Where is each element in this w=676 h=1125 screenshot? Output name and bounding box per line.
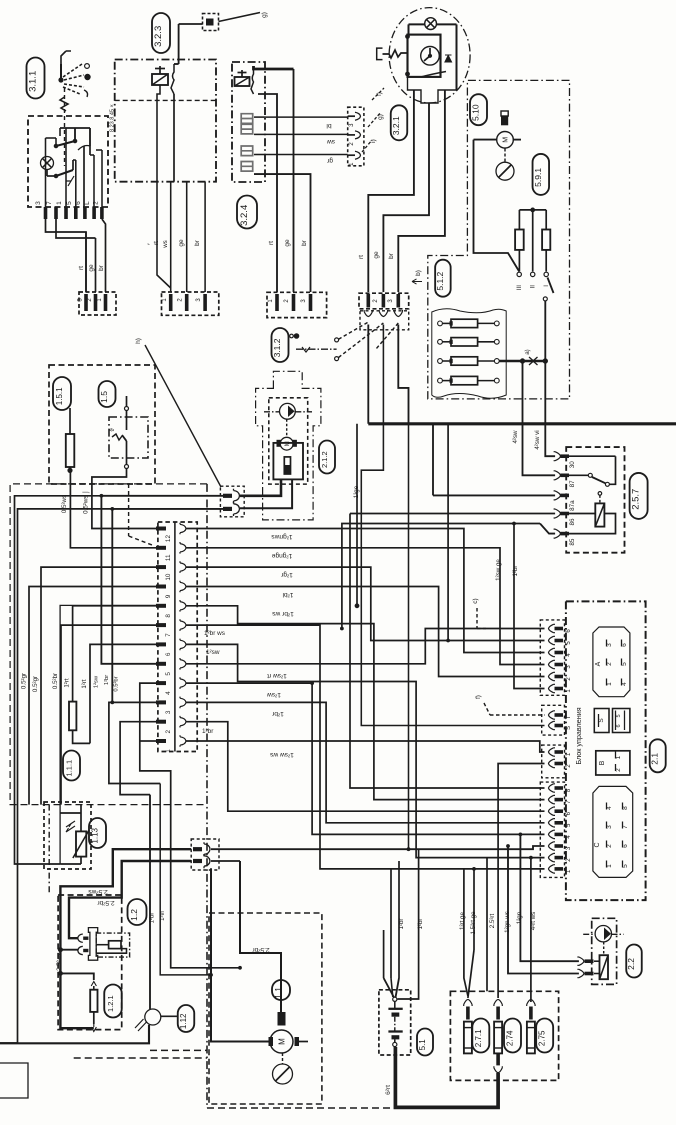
svg-text:1²br: 1²br (512, 565, 519, 576)
wire sender to strip pin5 (101, 496, 223, 664)
wire ge (186, 182, 188, 292)
svg-text:ge: ge (88, 264, 95, 272)
wire 4swvi down (545, 361, 555, 456)
wire relay86 to C8 (350, 514, 545, 789)
svg-text:3.1.2: 3.1.2 (272, 338, 282, 357)
wire from right into battery terminal (398, 935, 419, 999)
strip wire p1 left stub (140, 740, 156, 742)
wire 4rtws to fuse 2.75 (530, 858, 532, 998)
wire 0.5ws from resistor to pin11 (70, 473, 156, 548)
lamp supply wire (409, 23, 425, 25)
strip pin 2 (156, 720, 166, 724)
svg-text:1²sw rt: 1²sw rt (267, 672, 287, 679)
housing lower outline (408, 77, 457, 103)
strip pin 9 (156, 585, 166, 589)
contact circles 3.1.2 (335, 338, 339, 342)
component label oval 1.1.1 (63, 751, 80, 781)
control unit pin C6 (548, 807, 555, 815)
svg-text:B: B (599, 760, 606, 765)
pin 2 of 3.1.1 (100, 207, 104, 219)
wire p7 to C1 (186, 625, 545, 869)
pin 5 of 3.1.1 (74, 207, 78, 219)
valve terminal 1 (577, 957, 584, 965)
svg-text:1²br: 1²br (271, 710, 284, 717)
wire 87a up to ignition feed (432, 424, 434, 496)
glow plug inner dashed box (96, 933, 129, 957)
wire p2 to C6 (186, 722, 545, 812)
svg-text:5.1.2: 5.1.2 (435, 271, 445, 290)
wire from connector pin1 down (367, 325, 369, 424)
svg-text:2.74: 2.74 (506, 1030, 515, 1046)
component label oval 5.9.1 (533, 154, 550, 195)
contact set upper (56, 141, 75, 146)
control unit pin B1 (548, 748, 555, 756)
component label oval 3.1.1 (27, 58, 45, 99)
relay box 2.5.7 (566, 447, 624, 553)
relay terminal 87 (554, 471, 561, 480)
fuse box 2.7 (450, 991, 558, 1080)
glow element (109, 941, 121, 949)
valve terminal 2 (577, 969, 584, 977)
wire gr to pin 1 (265, 154, 348, 156)
component label oval 2.7.1 (472, 1019, 489, 1053)
svg-text:ge: ge (373, 251, 380, 259)
blower motor M (497, 132, 514, 149)
wire from connector pin3 down jog (398, 325, 408, 424)
strip pin 8 (156, 604, 166, 608)
svg-text:85: 85 (569, 538, 576, 546)
svg-text:1: 1 (56, 201, 63, 205)
svg-text:11: 11 (165, 554, 172, 561)
svg-text:1²gnws: 1²gnws (271, 533, 293, 540)
glow plug pins (83, 937, 88, 940)
svg-text:1²br: 1²br (150, 913, 156, 924)
equipment boundary box 5 (428, 80, 570, 399)
ground wire to glow indicator (0, 1025, 149, 1044)
resistor II (542, 230, 550, 250)
connector X of 3.2.4 (267, 292, 327, 317)
mechanical dashed link 1.5 (128, 484, 130, 536)
control unit pin C2 (548, 853, 555, 861)
wire C1 feed to fuse 2.7.1 (473, 869, 475, 950)
svg-text:2.1: 2.1 (650, 753, 660, 765)
fuse 2.74 bottom pin (496, 1053, 500, 1065)
motor feed wire (474, 140, 520, 272)
sensor arrows (66, 821, 75, 832)
svg-text:br: br (388, 252, 395, 259)
wire rt vertical (258, 94, 277, 292)
wire top thick from display (254, 66, 294, 69)
connector B pin field dashed box (542, 745, 565, 778)
svg-text:1.13: 1.13 (91, 827, 100, 843)
wire to 87a left (433, 494, 555, 496)
switch 3.1.2 symbols (294, 334, 298, 338)
fuse 2.75 (527, 999, 535, 1006)
sensor box 1.1.3 (44, 802, 91, 869)
switch 1.5 top lead (126, 396, 128, 407)
connector ST pin field dashed box (542, 705, 565, 735)
connector ST detail housings (594, 709, 609, 733)
svg-text:II: II (530, 285, 537, 289)
wire rt to connector (85, 232, 87, 292)
feed wire down to junction (408, 424, 410, 849)
wire 1vi down (160, 784, 211, 975)
svg-text:ge: ge (178, 239, 185, 247)
strip pin 10 (156, 565, 166, 569)
svg-text:1²bl: 1²bl (282, 591, 294, 598)
control unit pin C5 (548, 819, 555, 827)
equipment dashed box 1.1 (209, 913, 322, 1104)
wire ws (170, 182, 172, 292)
inline connector pair 2.1.2 (220, 486, 244, 517)
svg-text:T: T (566, 715, 572, 719)
control unit pin S (548, 721, 555, 729)
svg-text:bl: bl (326, 122, 332, 129)
sender housing (273, 443, 303, 480)
boundary dashed bottom (74, 1057, 207, 1059)
wire br (204, 182, 206, 292)
control unit pin C3 (548, 842, 555, 850)
harness connector strip box (158, 522, 197, 752)
svg-text:4²sw vi: 4²sw vi (534, 430, 541, 449)
wire 1.5rtge (486, 858, 488, 992)
wires from relay to connector 3.2.3 (173, 94, 175, 182)
switch unit box 3.1.1 (28, 116, 108, 207)
svg-text:br: br (301, 239, 308, 246)
wire 4sw down (523, 361, 556, 475)
svg-text:4²rt ws: 4²rt ws (530, 912, 537, 931)
connector X of 3.1.1 (79, 292, 116, 315)
svg-text:3.2.1: 3.2.1 (391, 116, 401, 135)
svg-text:1³ge: 1³ge (353, 485, 360, 498)
fuel level gauge bar (284, 457, 290, 474)
svg-text:gr: gr (326, 157, 333, 164)
component label oval 3.2.3 (152, 13, 170, 53)
wire from 1.1 right (298, 1041, 309, 1043)
inner partition dashed (115, 99, 216, 101)
component label oval 2.2 (626, 945, 642, 978)
strip wire p9 left (29, 587, 156, 805)
starter fan symbol (273, 1064, 293, 1084)
relay terminal 86 (554, 509, 561, 518)
svg-text:br: br (194, 239, 201, 246)
bottom left partial box (0, 1063, 28, 1098)
contact in 3.2.4 (251, 66, 254, 94)
bottom dashed segment (150, 1049, 207, 1051)
fuel pump circle (280, 403, 296, 419)
coil wiring (569, 513, 595, 515)
wire 0.5ws from switch to pin12 (92, 469, 156, 529)
svg-text:b): b) (415, 270, 422, 276)
svg-text:0.5²br: 0.5²br (52, 673, 59, 689)
wire to 85 left jog (540, 524, 555, 534)
clock housing (408, 35, 441, 77)
svg-text:1.2.1: 1.2.1 (106, 995, 115, 1012)
svg-text:1²sw ws: 1²sw ws (269, 751, 294, 758)
svg-text:87: 87 (569, 480, 576, 488)
connector C detail housing (593, 786, 633, 877)
fused feed wire row3 (499, 360, 543, 363)
illumination lamp (425, 18, 437, 30)
squiggle wire to housing (383, 50, 408, 58)
wire sw to pin 2 (265, 133, 348, 135)
component label oval 3.1.2 (272, 328, 289, 362)
wire ge to connector (95, 238, 97, 292)
svg-text:f): f) (475, 695, 482, 699)
svg-text:III: III (516, 285, 523, 290)
svg-text:g): g) (261, 12, 268, 18)
wire 1br down to 1.1.2 (149, 795, 151, 1009)
svg-text:1.1.1: 1.1.1 (65, 760, 74, 777)
white bus wire 2.5ws (60, 849, 191, 1028)
enclosure dashed box left (10, 484, 207, 805)
display unit box 3.2.4 (232, 62, 265, 182)
component label oval 1.2 (128, 899, 147, 925)
component box 1.2 (58, 895, 122, 1030)
svg-text:1²br: 1²br (104, 675, 110, 685)
gauge symbol black (501, 111, 508, 125)
svg-text:1²sw: 1²sw (94, 675, 100, 688)
inner dashed box 2.1.2 (269, 398, 308, 484)
svg-text:0.5²gr: 0.5²gr (32, 676, 39, 692)
svg-text:1²gr: 1²gr (280, 571, 293, 578)
control unit pin A4 (548, 648, 555, 656)
component label oval 3.2.1 (391, 105, 408, 140)
svg-text:i): i) (370, 139, 377, 143)
svg-text:1²gn ws: 1²gn ws (504, 911, 511, 933)
wire to terminal g (179, 23, 203, 25)
wire p4 to C4 (186, 683, 545, 834)
wire to valve t1 (520, 834, 579, 961)
svg-text:1²sw: 1²sw (206, 649, 220, 656)
wire 2.5br to glow pin1 (69, 861, 191, 938)
resistor feed wire (60, 973, 93, 980)
svg-text:7: 7 (46, 201, 53, 205)
wire 1ge drop (356, 424, 358, 606)
wire bl to pin 3 (265, 116, 348, 118)
svg-text:1.5.1: 1.5.1 (55, 387, 64, 405)
strip pin 12 (156, 527, 166, 531)
svg-text:87a: 87a (569, 500, 576, 511)
wire p10 to A5 (186, 567, 545, 640)
svg-text:5: 5 (165, 672, 172, 676)
wire 1 rt slant (157, 182, 171, 288)
clock face (421, 47, 440, 66)
thick wire from M left (211, 868, 269, 1041)
mech link dash-dot 3.1.2 (296, 348, 337, 350)
display drive wires (254, 116, 265, 118)
wire from pin 7 jog (56, 219, 96, 238)
relay contact (171, 64, 174, 94)
pin2 tap wire (60, 949, 77, 951)
wire from connector pin2 down to control unit S (361, 325, 544, 726)
strip pin 3 (156, 700, 166, 704)
relay terminal 87a (554, 491, 561, 500)
sensor top wire (80, 805, 82, 813)
svg-text:rt: rt (268, 241, 275, 245)
strip wire p2 left staircase (120, 722, 156, 795)
component label oval 1.1.3 (89, 818, 106, 848)
control unit pin C4 (548, 830, 555, 838)
thermo switch 1.5 (109, 417, 148, 458)
component label oval 1.2.1 (104, 985, 122, 1018)
wire 1rtge to fuse 2.7.1 (464, 869, 468, 996)
svg-text:8: 8 (165, 614, 172, 618)
battery positive funnel wires (383, 930, 385, 978)
svg-text:1²sw ge: 1²sw ge (495, 559, 502, 581)
connector X of 3.2.1 (359, 293, 409, 309)
wire 2.5br into 1.1 (240, 861, 281, 1012)
wire relay85 branch to A6 (342, 524, 514, 629)
component label oval 5.10 (470, 94, 487, 125)
svg-text:1²br ws: 1²br ws (204, 630, 225, 637)
plug connector top (203, 14, 219, 31)
resistor 1.1.1 (69, 702, 76, 731)
boundary dashed link (48, 805, 50, 895)
strip pin 5 (156, 662, 166, 666)
control unit pin C7 (548, 795, 555, 803)
connector X of 3.2.3 (162, 292, 219, 315)
component label oval 2.1.2 (319, 441, 335, 474)
svg-text:2.5²br: 2.5²br (252, 946, 270, 953)
svg-text:2.75: 2.75 (538, 1030, 547, 1046)
wire p1 to B1 (186, 741, 545, 752)
wire br to connector (102, 219, 106, 292)
svg-text:10: 10 (165, 573, 172, 581)
svg-text:C: C (594, 842, 601, 847)
inner mechanical dashed link (64, 116, 66, 166)
selector wire down (544, 301, 546, 361)
pin 6 of 3.1.1 (83, 207, 87, 219)
enclosure dash-dot boundary vertical (206, 484, 208, 1108)
svg-text:h): h) (135, 338, 142, 344)
relay coil (595, 503, 604, 526)
valve box 2.2 (592, 918, 617, 984)
component label oval 3.2.4 (237, 196, 257, 229)
sender wire left (240, 479, 281, 495)
svg-text:br: br (98, 264, 105, 271)
equipment box 2.1.2 (256, 371, 321, 520)
svg-text:S: S (566, 726, 572, 730)
connector A detail housing (593, 627, 630, 697)
svg-text:3.2.3: 3.2.3 (153, 26, 164, 47)
wire sender 2 down to junction (112, 509, 223, 703)
svg-text:9: 9 (165, 594, 172, 598)
solid box around 1.1.1 (60, 605, 158, 864)
svg-text:0.5²ws: 0.5²ws (61, 495, 68, 513)
strip wire p6 left (90, 644, 156, 743)
intermediate connector 3-pin (348, 107, 364, 166)
svg-text:L: L (84, 201, 91, 205)
svg-text:8 23 8 45 ×: 8 23 8 45 × (110, 104, 116, 132)
control unit pin B2 (548, 759, 555, 767)
component label oval 2.74 (504, 1019, 521, 1053)
strip wire p7 left (61, 625, 156, 805)
spring zigzag (60, 97, 68, 111)
mating connector arrows (360, 311, 409, 330)
wire sender branch to frame (0, 509, 112, 1043)
wire jog from pin 3 (46, 219, 87, 292)
svg-text:I: I (543, 285, 550, 287)
control unit pin A3 (548, 660, 555, 668)
svg-text:1²rt: 1²rt (64, 678, 71, 688)
terminal bracket left (377, 48, 383, 60)
svg-text:1²gn: 1²gn (516, 911, 523, 924)
svg-text:1²br: 1²br (417, 918, 424, 929)
fuse 2.74 wire up (497, 930, 499, 998)
wire p9 to A2 (186, 587, 545, 677)
component outline ellipse 3.2.1 (389, 8, 470, 103)
svg-text:6: 6 (165, 652, 172, 656)
wire ge vertical (293, 69, 295, 292)
svg-text:5.1: 5.1 (418, 1039, 427, 1051)
sender wire right (240, 479, 292, 508)
fuse 2.7.1 wire up slanted (468, 950, 474, 998)
lever detent rays (63, 64, 82, 77)
svg-text:rt: rt (358, 255, 365, 259)
pin 7 of 3.1.1 (54, 207, 58, 219)
wire to valve t2 (508, 846, 579, 974)
strip pin 11 (156, 546, 166, 550)
fuse 2.75 wire upper (530, 998, 532, 1002)
component label oval 5.1 (417, 1029, 433, 1056)
svg-text:1²vi: 1²vi (160, 911, 166, 921)
svg-text:M: M (278, 1038, 287, 1045)
component box 1.5 (49, 365, 155, 484)
resistor 1.2.1 with arrows (91, 982, 96, 987)
svg-text:0.5²gr: 0.5²gr (21, 673, 28, 689)
component label oval 1.5 (99, 381, 116, 407)
svg-text:2.5²rt: 2.5²rt (489, 914, 496, 929)
svg-text:1²br ws: 1²br ws (271, 610, 293, 617)
wiring inside switch box (55, 138, 57, 146)
pin 4 of 3.1.1 (92, 207, 96, 219)
connector C pin field dashed box (540, 782, 564, 877)
valve body (600, 955, 609, 979)
svg-text:86: 86 (569, 518, 576, 526)
svg-text:A: A (595, 661, 602, 666)
relay coil in 3.2.4 (235, 77, 250, 86)
fuse row 1 in 5.1.2 (438, 321, 443, 326)
svg-text:0.5²ws ⌡: 0.5²ws ⌡ (82, 490, 90, 514)
component label oval 2.5.7 (630, 473, 648, 519)
svg-text:4²sw: 4²sw (512, 430, 519, 444)
svg-text:Блок управления: Блок управления (574, 707, 583, 764)
wire p8 to C7 (186, 606, 545, 800)
svg-text:1.5²rt ge: 1.5²rt ge (470, 911, 477, 935)
svg-text:1²br: 1²br (398, 918, 405, 929)
control unit pin C1 (548, 865, 555, 873)
svg-text:2.1.2: 2.1.2 (320, 451, 329, 468)
wire p5 to A6 (186, 629, 545, 664)
svg-text:1²br: 1²br (202, 728, 214, 735)
svg-text:1²sw: 1²sw (267, 691, 281, 698)
control unit box 2.1 (566, 601, 646, 900)
svg-text:M: M (503, 137, 510, 143)
svg-text:12: 12 (165, 535, 172, 543)
fuse row 3 in 5.1.2 (438, 359, 443, 364)
svg-text:rt: rt (78, 266, 85, 270)
resistor 1.5.1 (66, 434, 75, 467)
connector A pin field dashed box (540, 620, 564, 695)
fuse panel torn-edge outline (432, 309, 506, 399)
strip wire p3 left staircase (109, 702, 160, 783)
svg-text:2: 2 (165, 729, 172, 733)
svg-text:2.7.1: 2.7.1 (474, 1029, 483, 1047)
svg-text:6: 6 (616, 724, 622, 727)
setting contact (421, 72, 446, 78)
dashed wires to clock connector (339, 322, 369, 339)
